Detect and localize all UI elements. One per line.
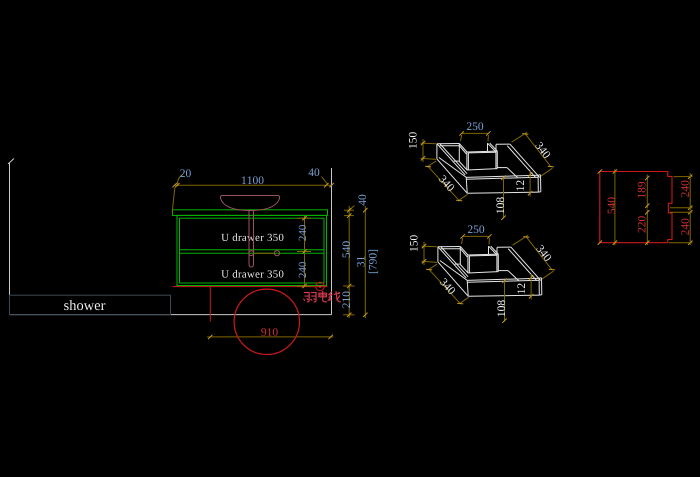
drawer divider — [180, 250, 325, 253]
shower label — [64, 300, 105, 310]
dim text 40 vertical — [358, 195, 366, 206]
dim text 910 — [261, 328, 277, 336]
basin drain pipe — [249, 211, 280, 268]
shower box — [10, 295, 171, 314]
dim 240 bottom detail — [689, 212, 691, 246]
dim text 1100 — [242, 176, 264, 184]
wall right vertical — [331, 168, 333, 315]
dim text 210 — [342, 292, 350, 308]
right dim line 1 ticks — [347, 208, 351, 317]
910 extension line red — [209, 287, 211, 322]
iso view upper — [409, 122, 554, 220]
red circle — [234, 289, 299, 354]
dim text 40 — [308, 168, 319, 176]
dim 220 detail — [646, 210, 648, 246]
interior 240 ticks — [302, 216, 306, 288]
wall left vertical — [8, 159, 14, 315]
dim 540 detail — [614, 169, 616, 245]
dim text 240 lower — [299, 262, 306, 278]
interior 240 dim line — [172, 188, 311, 287]
iso view lower — [410, 225, 555, 323]
dim text 540 — [342, 241, 350, 257]
trap arm line — [254, 252, 275, 254]
dim 240 top detail — [689, 173, 691, 211]
drawer label bottom — [221, 270, 283, 278]
detail outline — [600, 172, 672, 243]
dim text 20 — [180, 169, 191, 177]
cabinet body outer — [177, 215, 327, 285]
detail extension stubs — [669, 177, 693, 243]
right dim line 2 — [364, 206, 366, 318]
cabinet bottom red line — [173, 286, 328, 288]
right dim line 1 — [343, 206, 355, 319]
floor line — [10, 314, 332, 316]
dim text 790 — [369, 250, 379, 273]
dim 189 detail — [646, 175, 648, 209]
cabinet body inner — [180, 218, 325, 283]
weak current marker circle — [316, 282, 325, 291]
weak current label (hand-drawn CJK strokes) — [303, 291, 340, 302]
drawer label top — [221, 233, 283, 241]
dim ticks top — [172, 183, 333, 187]
dim text 31 — [357, 256, 365, 266]
countertop — [173, 210, 328, 216]
dim text 240 upper — [299, 225, 306, 241]
top dimension line — [175, 175, 332, 186]
910 dimension line — [207, 336, 333, 338]
basin — [221, 196, 280, 211]
right dim line 2 ticks — [363, 208, 367, 317]
910 ticks — [208, 335, 333, 339]
